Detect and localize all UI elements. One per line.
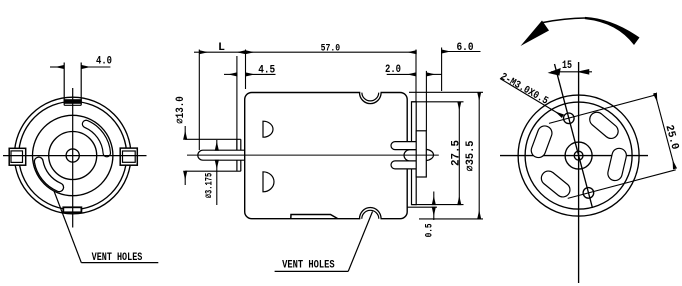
hole axis line <box>555 64 593 208</box>
outer circle <box>518 95 639 216</box>
top edge break for notch <box>360 91 380 94</box>
dim 27.5 <box>412 102 464 205</box>
vent D-shape upper <box>263 121 273 137</box>
swoosh arrowhead <box>521 21 550 47</box>
endbell slab <box>412 102 417 205</box>
svg-text:6.0: 6.0 <box>457 42 474 54</box>
dimension L line <box>199 51 245 53</box>
svg-text:VENT HOLES: VENT HOLES <box>92 252 143 264</box>
extension line bearing tip <box>441 48 443 92</box>
label VENT HOLES (left view) <box>54 191 159 263</box>
rear bearing bump <box>426 149 433 160</box>
dim diameter 3.175 <box>216 140 218 205</box>
dim 0.5 <box>433 192 435 221</box>
bottom tab <box>63 207 81 212</box>
shaft circle <box>66 149 79 162</box>
svg-text:⌀3.175: ⌀3.175 <box>203 173 215 199</box>
vent bean top-right <box>597 119 611 131</box>
terminal 2 <box>391 161 416 169</box>
top vent notch (double arc) <box>360 93 382 104</box>
bottom edge break for dome <box>360 217 380 220</box>
outer circle <box>14 97 131 214</box>
motor can body <box>245 93 408 219</box>
dim-13 boss <box>237 139 241 171</box>
screw hole 2 <box>583 188 594 199</box>
svg-text:57.0: 57.0 <box>321 43 341 55</box>
screw hole 1 <box>564 113 575 124</box>
dim diameter 13.0 (left vertical) <box>185 126 241 185</box>
bearing holder middle <box>404 150 416 161</box>
svg-text:⌀35.5: ⌀35.5 <box>465 140 477 171</box>
dimension 4.5 left arrow <box>224 73 237 75</box>
vent bean left <box>538 133 544 150</box>
dimension 6.0 line <box>442 51 481 53</box>
horizontal centerline <box>500 155 648 157</box>
extension line shaft tip <box>198 50 200 151</box>
svg-text:4.0: 4.0 <box>96 55 112 67</box>
rotation arrow (swoosh) <box>543 18 585 23</box>
svg-text:0.5: 0.5 <box>424 223 436 237</box>
bottom vent dome (double arc) <box>360 208 382 219</box>
rotation arrow thick tail <box>585 17 640 45</box>
svg-text:L: L <box>218 42 225 54</box>
middle centerline <box>187 154 439 156</box>
svg-text:4.5: 4.5 <box>258 64 275 76</box>
vertical centerline <box>578 62 580 283</box>
hub circle <box>565 142 592 169</box>
vent D-shape lower <box>263 172 274 192</box>
svg-text:2.0: 2.0 <box>385 64 401 76</box>
extension line can front face <box>245 50 247 90</box>
vent slot bottom-left <box>39 162 60 188</box>
label 2-M3.0X0.5 with leader <box>500 79 563 117</box>
shaft hole <box>574 151 583 160</box>
extension line endbell face <box>415 50 417 102</box>
rear boss <box>416 131 426 177</box>
bottom vent ridge <box>291 215 338 219</box>
svg-text:27.5: 27.5 <box>450 140 462 166</box>
vent bean bottom-left <box>549 178 563 190</box>
dim diameter 35.5 <box>409 92 483 219</box>
dim 25.0 (diagonal) <box>549 94 676 199</box>
dimension 4.0 <box>50 66 110 68</box>
hub circle <box>49 132 97 180</box>
shaft <box>198 150 245 160</box>
rim circle <box>525 102 632 209</box>
horizontal centerline <box>3 155 147 157</box>
extension line boss face <box>236 56 238 150</box>
vertical centerline <box>72 88 74 228</box>
svg-text:⌀13.0: ⌀13.0 <box>175 96 187 124</box>
dimension 2.0 right arrow <box>427 73 442 75</box>
dim 15 (angle) <box>550 69 593 75</box>
vent bean right <box>615 156 619 174</box>
body circle <box>32 115 112 195</box>
dimension 2.0 left arrow <box>387 73 416 75</box>
svg-text:VENT HOLES: VENT HOLES <box>282 260 335 272</box>
dimension 4.5 right arrow <box>246 73 276 75</box>
dimension 57.0 line <box>246 51 417 53</box>
dimension L tail <box>194 51 199 53</box>
label VENT HOLES (middle view) <box>275 212 373 272</box>
svg-text:15: 15 <box>562 60 572 72</box>
top tab <box>63 63 65 106</box>
vent slot top-right <box>86 124 107 153</box>
right tab <box>120 148 137 165</box>
extension line rear boss <box>425 71 427 131</box>
endbell lip (0.5 step) <box>407 206 437 208</box>
terminal 1 <box>391 142 416 150</box>
rim circle <box>19 102 127 210</box>
left tab <box>9 148 26 165</box>
